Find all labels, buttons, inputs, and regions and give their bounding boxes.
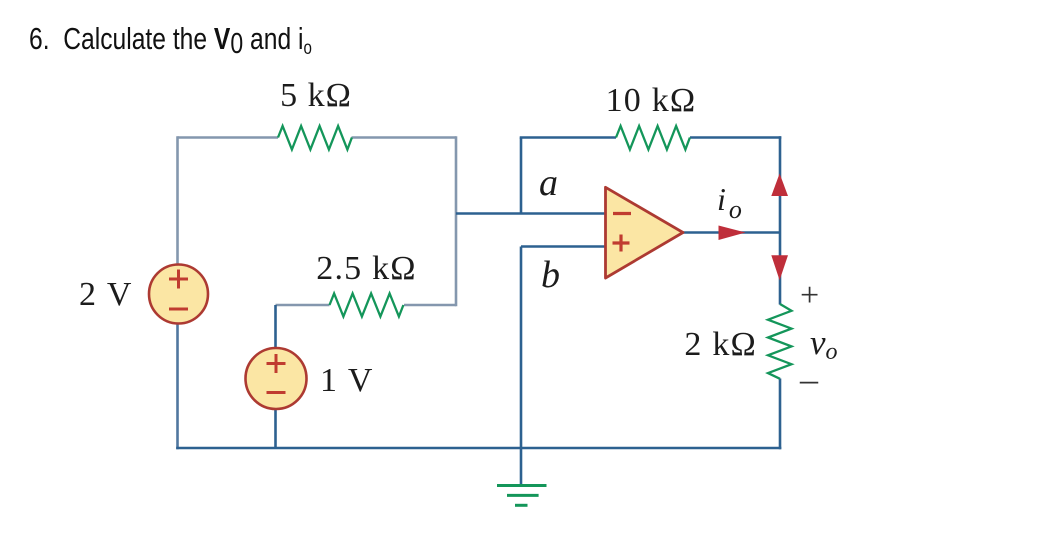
resistor R1 5 kOhm zigzag [278, 126, 352, 150]
svg-text:–: – [799, 359, 819, 399]
wire op-amp inverting input [456, 212, 606, 215]
svg-text:1 V: 1 V [320, 362, 374, 399]
voltage source V1 2V circle [149, 265, 208, 324]
wire top-left loop [178, 136, 457, 306]
voltage source V2 1V circle [246, 348, 307, 409]
arrow up on right vertical [771, 174, 788, 197]
svg-text:+: + [800, 277, 819, 314]
svg-text:5 kΩ: 5 kΩ [280, 77, 352, 114]
wire left vertical upper [176, 136, 179, 264]
svg-text:10 kΩ: 10 kΩ [606, 82, 697, 119]
wire op-amp noninverting input [521, 245, 606, 248]
op-amp U1 noninverting input plus sign [613, 235, 630, 252]
resistor R4 2 kOhm vertical zigzag [768, 304, 792, 379]
wire bottom horizontal [176, 447, 781, 450]
wire right vertical lower [779, 379, 782, 450]
arrow down on right vertical [771, 255, 788, 280]
svg-text:2.5 kΩ: 2.5 kΩ [316, 250, 416, 287]
wire output [683, 231, 780, 234]
voltage source V2 minus sign [267, 391, 286, 394]
svg-text:a: a [539, 162, 558, 204]
wire top-right loop left segment [520, 136, 616, 139]
wire right vertical upper [779, 136, 782, 304]
wire top horizontal left segment [178, 136, 279, 139]
wire top-right loop right segment [690, 136, 781, 139]
ground [497, 486, 547, 506]
wire 1V upper vertical [274, 305, 277, 349]
op-amp U1 inverting input minus sign [613, 212, 631, 215]
wire 2.5k horizontal left segment [276, 304, 330, 307]
wire top horizontal right segment [352, 136, 457, 139]
wire left vertical lower (below 2V source) [176, 324, 179, 450]
svg-text:2 V: 2 V [79, 276, 133, 313]
wire node-a vertical [520, 138, 523, 214]
svg-text:io: io [717, 181, 742, 224]
svg-text:b: b [541, 254, 560, 296]
wire right vertical of left loop [455, 136, 458, 306]
svg-text:2 kΩ: 2 kΩ [684, 326, 757, 363]
wire node-b vertical to ground [520, 247, 523, 486]
wire 1V lower vertical [274, 408, 277, 448]
wire 2.5k horizontal right segment [404, 304, 456, 307]
resistor R3 2.5 kOhm zigzag [330, 294, 404, 317]
voltage source V2 plus sign [267, 354, 286, 373]
resistor R2 10 kOhm zigzag [616, 126, 690, 150]
arrow io on output wire [719, 226, 746, 241]
svg-text:6. Calculate the V0 and io: 6. Calculate the V0 and io [29, 21, 312, 59]
voltage source V1 minus sign [169, 308, 188, 311]
op-amp U1 triangle [606, 187, 684, 278]
title text [29, 21, 312, 59]
dark wires [176, 136, 781, 485]
voltage source V1 plus sign [169, 270, 188, 289]
